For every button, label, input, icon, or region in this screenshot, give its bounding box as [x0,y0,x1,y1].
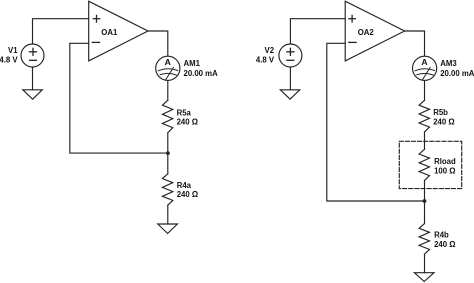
svg-text:R4b: R4b [434,231,449,240]
svg-text:Rload: Rload [434,157,456,166]
label R5b 240 ohm [433,108,454,127]
svg-text:R4a: R4a [177,181,192,190]
resistor R5b [419,100,429,132]
svg-text:240 Ω: 240 Ω [177,118,198,127]
ground below R4a [158,224,178,234]
resistor R4a [162,174,172,205]
label AM1 20.00 mA [184,59,219,78]
ground below V1 [23,90,43,99]
svg-text:240 Ω: 240 Ω [434,240,455,249]
label R4b 240 ohm [434,231,455,250]
voltage source V1 [21,44,44,67]
wire AM3 to R5b [424,81,426,101]
wire R4a to ground [167,205,169,224]
wire Rload to R4b [424,180,426,223]
ammeter AM1 [156,56,180,80]
wire V2 top to OA2 + input [290,19,345,44]
svg-text:V2: V2 [265,46,275,55]
svg-text:100 Ω: 100 Ω [434,167,455,176]
resistor R4b [419,224,429,255]
svg-text:240 Ω: 240 Ω [177,190,198,199]
dashed highlight box around Rload [399,141,461,188]
svg-text:20.00 mA: 20.00 mA [184,69,219,78]
label AM3 20.00 mA [440,59,474,78]
svg-text:OA1: OA1 [101,28,118,37]
ammeter AM3 [413,56,437,80]
wire OA2 output to AM3 [405,31,425,56]
label V1 4.8 V [0,46,18,65]
op-amp OA2 [345,1,404,61]
svg-text:R5a: R5a [177,108,192,117]
wire OA1 - input feedback loop [70,43,168,153]
svg-text:AM1: AM1 [184,59,201,68]
wire V1 bottom to ground [32,67,34,90]
wire OA2 - input feedback loop [327,43,425,201]
resistor R5a [162,100,172,133]
label R4a 240 ohm [177,181,198,199]
label V2 4.8 V [256,46,275,65]
svg-text:V1: V1 [8,46,18,55]
ground below V2 [280,90,300,99]
wire V1 top to OA1 + input [33,19,89,44]
label R5a 240 ohm [177,108,198,126]
svg-text:20.00 mA: 20.00 mA [440,69,474,78]
svg-text:A: A [165,57,171,67]
wire R4b to ground [424,254,426,273]
wire AM1 to R5a [167,81,169,101]
svg-text:240 Ω: 240 Ω [433,118,454,127]
label Rload 100 ohm [434,157,456,176]
wire OA1 output to AM1 [148,31,168,56]
junction node right [423,199,427,203]
svg-text:OA2: OA2 [358,28,375,37]
svg-text:A: A [421,57,427,67]
junction node [166,151,170,155]
ground below R4b [414,273,434,282]
op-amp OA1 [89,1,148,61]
voltage source V2 [279,44,302,67]
resistor Rload [419,149,429,180]
svg-text:4.8 V: 4.8 V [256,56,275,65]
svg-text:AM3: AM3 [440,59,457,68]
svg-text:4.8 V: 4.8 V [0,56,18,65]
wire R5b to Rload [424,132,426,149]
wire R5a to R4a [167,133,169,174]
svg-text:R5b: R5b [433,108,448,117]
wire V2 bottom to ground [289,67,291,90]
